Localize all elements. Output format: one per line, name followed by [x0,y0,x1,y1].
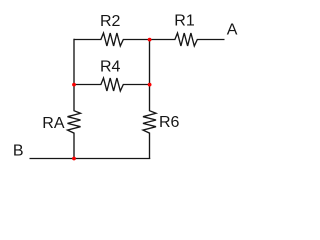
svg-text:R1: R1 [174,13,195,30]
svg-text:R6: R6 [159,114,180,131]
svg-text:RA: RA [42,115,65,132]
svg-text:B: B [13,143,24,160]
svg-text:R4: R4 [100,59,121,76]
svg-text:R2: R2 [100,13,121,30]
svg-text:A: A [227,22,238,39]
